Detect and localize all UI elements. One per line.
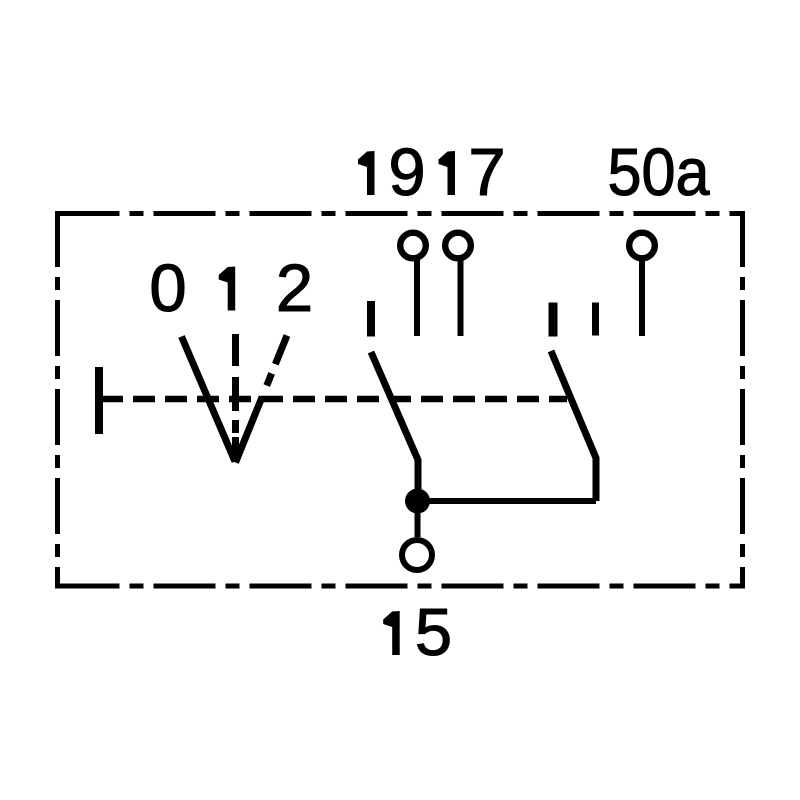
svg-text:7: 7 [468, 135, 505, 210]
svg-text:50a: 50a [608, 135, 711, 210]
fixed contact tick (left of 19) [367, 301, 375, 337]
dashed mechanical coupling rail [101, 396, 567, 403]
terminal label 15, digit 1 [383, 611, 400, 655]
movable contact arm 2 [551, 351, 596, 501]
junction dot (node 15 common) [405, 489, 430, 514]
switch enclosure left border (dash-dot) [55, 211, 60, 589]
svg-text:2: 2 [276, 251, 313, 326]
fixed contact tick (left of 50a) [592, 303, 599, 336]
terminal 15 circle [402, 540, 432, 570]
terminal 50a stem wire [639, 258, 645, 336]
wire from junction down to terminal 15 [415, 501, 421, 537]
terminal 19 stem wire [414, 258, 420, 336]
wire from junction to arm 2 [417, 498, 596, 504]
fixed contact tick (left pair, right of dashed rail) [549, 303, 558, 337]
terminal 19 circle [400, 233, 426, 259]
svg-text:9: 9 [388, 135, 425, 210]
switch enclosure top border (dash-dot) [58, 211, 743, 216]
left terminal bar [95, 367, 103, 434]
terminal 17 stem wire [458, 258, 464, 336]
selector lever position 2 (dashed diagonal, solid toward tip) [236, 336, 288, 463]
switch enclosure right border (dash-dot) [740, 211, 745, 589]
terminal 17 circle [445, 233, 471, 259]
selector lever position 1 (dashed vertical) [232, 334, 239, 462]
selector lever position 0 (solid diagonal) [182, 337, 236, 462]
svg-text:5: 5 [415, 595, 452, 670]
terminal 50a circle [629, 233, 655, 259]
position label 1 [219, 267, 236, 311]
terminal label 17, digit 1 [439, 151, 456, 195]
svg-text:0: 0 [149, 251, 186, 326]
switch enclosure bottom border (dash-dot) [58, 584, 743, 589]
terminal label 19, digit 1 [358, 151, 375, 195]
movable contact arm 1 [371, 352, 418, 497]
